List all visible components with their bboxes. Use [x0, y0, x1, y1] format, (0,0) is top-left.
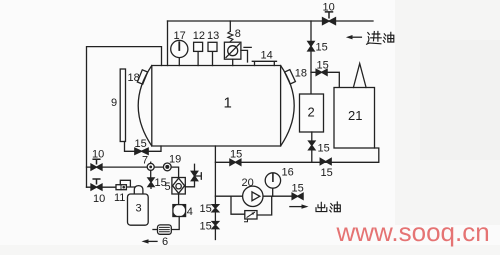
inlet vertical to box 2	[310, 21, 312, 94]
valve 10 row1	[91, 164, 102, 170]
bypass valve right of 5	[185, 164, 201, 187]
svg-text:1: 1	[224, 95, 232, 112]
svg-text:20: 20	[242, 177, 254, 189]
wire top header pipe	[168, 20, 374, 22]
valve 10 row2	[91, 184, 102, 190]
nozzle 18 left	[137, 70, 147, 84]
svg-text:19: 19	[169, 154, 181, 166]
svg-text:15: 15	[317, 60, 329, 72]
svg-text:6: 6	[162, 236, 168, 248]
text chu you	[316, 202, 340, 212]
level gauge 9	[120, 69, 125, 142]
valve 15 outlet	[292, 193, 303, 199]
svg-text:15: 15	[318, 143, 330, 155]
svg-text:18: 18	[295, 68, 307, 80]
svg-text:17: 17	[174, 30, 186, 42]
relief valve 8	[229, 21, 231, 31]
svg-text:www.sooq.cn: www.sooq.cn	[336, 217, 490, 247]
arrow out (chu you)	[290, 206, 304, 208]
wire line A (7/19 row)	[87, 167, 179, 177]
svg-text:13: 13	[207, 30, 219, 42]
wire 4 to cooler 6	[171, 217, 179, 230]
valve 15 on cross line right	[320, 158, 331, 164]
svg-text:15: 15	[321, 167, 333, 179]
wire pump suction line	[215, 195, 291, 197]
svg-text:14: 14	[261, 50, 273, 62]
svg-text:9: 9	[111, 97, 117, 109]
svg-text:15: 15	[200, 203, 212, 215]
tank T1 vessel 1	[138, 66, 294, 147]
nozzle 18 right	[285, 70, 296, 84]
text jin you	[367, 32, 394, 45]
valve 15 inlet top	[308, 41, 314, 51]
wire left loop (top run, left riser)	[87, 47, 162, 188]
hatch 14	[252, 61, 276, 65]
arrow out 6	[145, 240, 157, 242]
valve 15 branch	[316, 69, 327, 75]
valve 15 on cross line left	[230, 159, 241, 165]
svg-text:4: 4	[187, 206, 193, 218]
svg-text:8: 8	[235, 28, 241, 40]
regulator 11	[116, 185, 126, 190]
drop valve 15 a	[212, 205, 219, 212]
svg-text:3: 3	[136, 203, 142, 215]
svg-text:10: 10	[323, 2, 335, 14]
cooler 6	[158, 225, 172, 234]
valve 10 header	[323, 18, 336, 25]
heater 2	[300, 94, 324, 132]
valve 15 below 2	[311, 132, 313, 162]
valve 15 drain (tank left)	[135, 148, 148, 154]
wire branch to 21	[311, 72, 339, 87]
svg-text:2: 2	[308, 105, 315, 120]
bypass loop relief 22	[231, 196, 272, 215]
svg-text:15: 15	[316, 42, 328, 54]
pump 20	[243, 186, 263, 206]
wire gauge drain to tank bottom	[125, 142, 162, 152]
valve 15 under 7	[150, 170, 152, 188]
check 19	[163, 163, 171, 171]
sight glass 7	[147, 163, 154, 170]
gauge 17	[178, 58, 180, 66]
svg-text:21: 21	[348, 108, 362, 123]
svg-text:12: 12	[193, 30, 205, 42]
sensor 13	[212, 51, 214, 65]
svg-text:10: 10	[93, 193, 105, 205]
sensor 12	[197, 51, 199, 65]
svg-text:15: 15	[230, 149, 242, 161]
svg-text:15: 15	[200, 221, 212, 233]
svg-text:15: 15	[135, 138, 147, 150]
filter 5	[172, 178, 185, 195]
arrow in (jin you)	[351, 36, 362, 38]
svg-text:11: 11	[114, 192, 125, 204]
pump 4	[178, 194, 180, 205]
tank 3	[134, 186, 143, 194]
drop valve 15 b	[212, 222, 219, 229]
svg-text:10: 10	[92, 149, 104, 161]
tank bottom outlet drop	[214, 146, 216, 240]
svg-text:5: 5	[165, 181, 171, 193]
wire header left drop to tank top	[167, 21, 169, 66]
svg-text:18: 18	[128, 72, 140, 84]
svg-text:16: 16	[282, 167, 294, 179]
svg-text:15: 15	[292, 183, 304, 195]
burner 21	[334, 88, 375, 149]
svg-text:7: 7	[142, 155, 148, 167]
wire bottom cross line	[215, 148, 378, 162]
wire line B (row2 fill line)	[87, 186, 135, 188]
gauge 16	[272, 188, 274, 196]
